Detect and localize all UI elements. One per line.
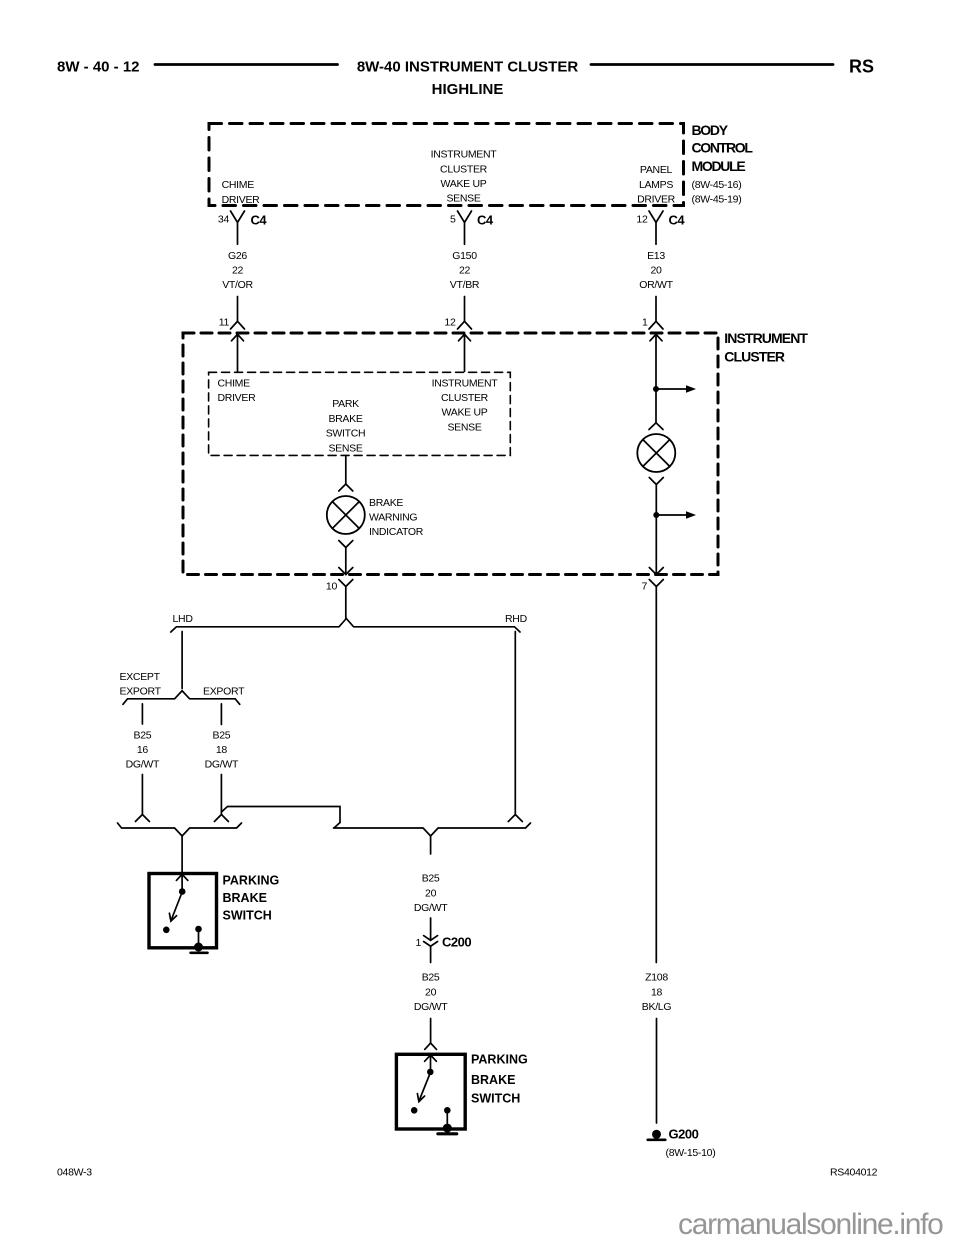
svg-text:RS: RS	[849, 56, 874, 76]
svg-text:SWITCH: SWITCH	[223, 909, 272, 923]
branch arrow right 2	[656, 514, 686, 516]
svg-text:INSTRUMENT: INSTRUMENT	[431, 149, 498, 161]
svg-text:(8W-45-16): (8W-45-16)	[692, 179, 742, 191]
svg-text:PARK: PARK	[332, 398, 359, 410]
connector 10 fork below box	[339, 580, 353, 619]
svg-text:RS404012: RS404012	[830, 1166, 878, 1178]
svg-text:048W-3: 048W-3	[57, 1166, 92, 1178]
svg-text:VT/BR: VT/BR	[450, 279, 480, 291]
pin 10 exit arrowhead	[339, 568, 353, 575]
svg-text:MODULE: MODULE	[692, 158, 746, 174]
svg-text:HIGHLINE: HIGHLINE	[432, 81, 504, 98]
wire B25 16 upper	[141, 704, 143, 724]
svg-text:OR/WT: OR/WT	[639, 279, 673, 291]
svg-text:SWITCH: SWITCH	[471, 1092, 520, 1106]
svg-text:CHIME: CHIME	[218, 377, 251, 389]
switch 1 blade	[172, 895, 182, 919]
wire to parking brake switch 1	[181, 836, 183, 874]
svg-text:EXPORT: EXPORT	[120, 686, 162, 698]
svg-text:DG/WT: DG/WT	[205, 759, 239, 771]
svg-text:B25: B25	[134, 729, 152, 741]
svg-text:(8W-45-19): (8W-45-19)	[692, 194, 742, 206]
svg-text:DG/WT: DG/WT	[414, 1001, 448, 1013]
pin 11 entry arrow	[232, 334, 244, 371]
svg-text:DRIVER: DRIVER	[218, 392, 257, 404]
svg-text:BRAKE: BRAKE	[471, 1073, 515, 1087]
svg-text:CHIME: CHIME	[222, 179, 255, 191]
instrument cluster box	[183, 333, 718, 575]
svg-text:RHD: RHD	[505, 613, 528, 625]
pin 7 exit arrowhead	[649, 568, 663, 575]
svg-text:16: 16	[137, 744, 149, 756]
panel lamps illumination lamp	[637, 434, 675, 472]
svg-text:carmanualsonline.info: carmanualsonline.info	[678, 1208, 943, 1241]
svg-text:22: 22	[232, 265, 244, 277]
svg-text:20: 20	[425, 887, 437, 899]
svg-text:CLUSTER: CLUSTER	[440, 163, 488, 175]
svg-text:G200: G200	[669, 1127, 699, 1142]
svg-text:C4: C4	[251, 213, 268, 228]
svg-text:B25: B25	[213, 729, 231, 741]
pin 12 entry arrow	[459, 334, 471, 371]
wire B25 20 to switch 2	[430, 1019, 432, 1043]
svg-text:BK/LG: BK/LG	[642, 1001, 672, 1013]
wire E13 lower	[655, 297, 657, 322]
merge bracket left	[118, 823, 242, 836]
wire B25 18 upper	[220, 704, 222, 725]
svg-text:DRIVER: DRIVER	[637, 194, 676, 206]
svg-text:PARKING: PARKING	[471, 1053, 528, 1067]
svg-text:INSTRUMENT: INSTRUMENT	[724, 330, 808, 346]
wire B25 20 below C200	[430, 946, 432, 962]
body control module box	[209, 124, 684, 206]
svg-text:CONTROL: CONTROL	[692, 140, 754, 156]
wire B25 20 from merge	[430, 836, 432, 854]
RHD drop wire	[514, 632, 516, 815]
svg-text:EXPORT: EXPORT	[203, 686, 245, 698]
svg-text:G150: G150	[452, 250, 477, 262]
svg-text:8W-40 INSTRUMENT CLUSTER: 8W-40 INSTRUMENT CLUSTER	[357, 58, 579, 75]
svg-text:CLUSTER: CLUSTER	[441, 392, 489, 404]
svg-text:BRAKE: BRAKE	[328, 413, 362, 425]
header rule left	[155, 63, 338, 66]
svg-text:B25: B25	[422, 873, 440, 885]
svg-text:7: 7	[641, 580, 647, 592]
svg-text:18: 18	[216, 744, 228, 756]
splice chevron export	[214, 815, 228, 822]
connector 11 chevron	[231, 321, 245, 329]
svg-text:SENSE: SENSE	[446, 193, 480, 205]
svg-text:PARKING: PARKING	[223, 874, 280, 888]
svg-text:1: 1	[642, 316, 648, 328]
wire B25 20 to C200	[430, 918, 432, 940]
svg-text:34: 34	[218, 213, 230, 225]
switch 2 pole	[427, 1069, 434, 1076]
svg-text:LAMPS: LAMPS	[639, 179, 673, 191]
LHD/RHD split bracket	[171, 619, 520, 633]
connector C4 pin 34 fork	[231, 211, 245, 244]
svg-text:PANEL: PANEL	[640, 164, 673, 176]
switch 1 entry arrow	[176, 874, 187, 889]
LHD drop wire	[181, 632, 183, 689]
wire B25 18 lower	[220, 775, 222, 815]
connector C4 pin 12 fork	[649, 211, 663, 244]
svg-text:WAKE UP: WAKE UP	[441, 178, 487, 190]
parking brake switch 2 box	[396, 1054, 465, 1129]
instrument cluster inner dashed box	[209, 372, 511, 455]
switch 2 contact right	[444, 1107, 451, 1114]
svg-text:DRIVER: DRIVER	[222, 194, 261, 206]
svg-text:WAKE UP: WAKE UP	[442, 407, 488, 419]
connector 1 chevron	[649, 321, 663, 329]
svg-text:DG/WT: DG/WT	[126, 759, 160, 771]
connector 12 chevron	[458, 321, 472, 329]
brake lamp terminal top chevron	[339, 484, 353, 491]
svg-text:VT/OR: VT/OR	[222, 279, 253, 291]
switch 2 entry arrow	[425, 1055, 437, 1069]
svg-text:5: 5	[450, 213, 456, 225]
svg-text:INDICATOR: INDICATOR	[369, 526, 424, 538]
svg-text:DG/WT: DG/WT	[414, 902, 448, 914]
svg-text:22: 22	[459, 265, 471, 277]
branch arrow right 1	[656, 388, 686, 390]
switch 2 contact left	[411, 1107, 418, 1114]
svg-text:11: 11	[219, 316, 230, 328]
wire G26 lower	[237, 297, 239, 322]
except-export/export split bracket	[123, 691, 240, 705]
switch 2 ground	[443, 1124, 452, 1133]
svg-text:INSTRUMENT: INSTRUMENT	[432, 377, 499, 389]
svg-text:20: 20	[425, 986, 437, 998]
svg-text:SENSE: SENSE	[447, 421, 481, 433]
switch 1 ground stub	[198, 932, 200, 943]
ground G200	[652, 1130, 661, 1139]
wire park brake sense to lamp	[345, 456, 347, 485]
svg-text:1: 1	[415, 937, 421, 949]
svg-text:12: 12	[444, 316, 456, 328]
connector C200 double chevron	[424, 936, 438, 947]
svg-text:Z108: Z108	[645, 972, 668, 984]
splice chevron left	[135, 815, 149, 822]
svg-text:BRAKE: BRAKE	[223, 891, 267, 905]
wire G150 lower	[464, 297, 466, 322]
switch 2 ground stub	[446, 1114, 448, 1125]
connector C4 pin 5 fork	[458, 211, 472, 244]
switch 1 ground	[194, 943, 203, 952]
node splice junction 2	[653, 512, 659, 518]
svg-text:C200: C200	[442, 934, 471, 949]
pin 1 entry arrow + wire to lamp	[650, 334, 662, 423]
merge bracket right	[334, 823, 531, 837]
switch 1 contact left	[163, 927, 170, 934]
svg-text:EXCEPT: EXCEPT	[120, 671, 161, 683]
switch 1 contact right	[195, 926, 202, 933]
brake lamp terminal bottom fork	[339, 541, 353, 575]
svg-text:SWITCH: SWITCH	[326, 428, 366, 440]
parking brake switch 1 box	[149, 874, 217, 948]
svg-text:B25: B25	[422, 972, 440, 984]
svg-text:WARNING: WARNING	[369, 512, 417, 524]
svg-text:BODY: BODY	[692, 122, 729, 138]
svg-text:SENSE: SENSE	[328, 443, 362, 455]
svg-text:E13: E13	[647, 250, 665, 262]
svg-text:C4: C4	[477, 213, 494, 228]
node splice junction 1	[653, 386, 659, 392]
svg-text:C4: C4	[669, 213, 686, 228]
switch 2 terminal chevron	[425, 1043, 437, 1049]
tap wire to rhd bus	[221, 807, 340, 823]
svg-text:18: 18	[651, 986, 663, 998]
svg-text:20: 20	[650, 265, 662, 277]
wire Z108 lower	[656, 1019, 658, 1124]
svg-text:G26: G26	[228, 250, 247, 262]
panel lamp terminal bottom fork	[649, 478, 663, 575]
svg-text:(8W-15-10): (8W-15-10)	[666, 1147, 716, 1159]
header rule right	[591, 63, 833, 66]
splice chevron rhd	[508, 815, 522, 822]
svg-text:CLUSTER: CLUSTER	[724, 348, 785, 364]
svg-text:LHD: LHD	[173, 613, 194, 625]
svg-text:8W - 40 - 12: 8W - 40 - 12	[57, 58, 140, 75]
switch 2 blade	[420, 1076, 430, 1100]
svg-text:BRAKE: BRAKE	[369, 497, 403, 509]
connector 7 fork below box	[649, 580, 663, 963]
svg-text:12: 12	[636, 213, 648, 225]
panel lamp terminal top chevron	[649, 423, 663, 430]
brake warning indicator lamp	[327, 496, 365, 534]
svg-text:10: 10	[326, 580, 338, 592]
wire B25 16 lower	[141, 775, 143, 815]
switch 1 pole	[179, 888, 186, 895]
